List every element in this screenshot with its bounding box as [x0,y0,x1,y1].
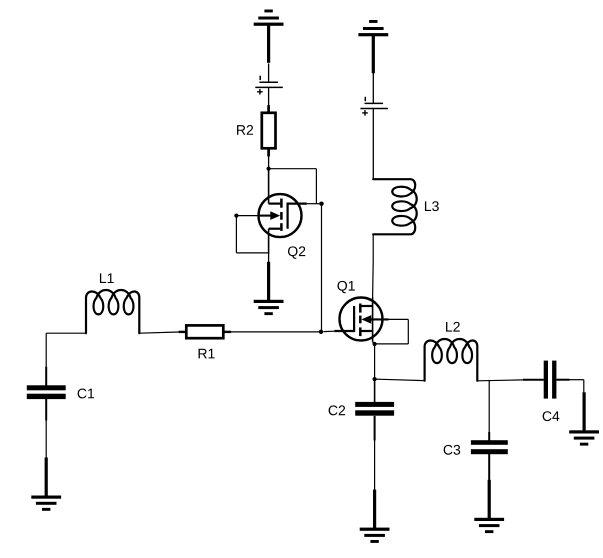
wire [268,87,270,105]
label L3 [425,201,439,211]
Q2 top stub [269,203,281,205]
wire [268,64,270,83]
node junction below R2 [267,167,271,171]
Q2 source lead [268,229,270,254]
Q1 gate bar [353,306,355,332]
battery B1 [360,97,388,116]
transistor Q1 body circle [340,298,383,341]
wire [45,420,47,458]
node C2 junction [373,377,377,381]
resistor R1 [179,325,232,338]
wire L2 to C4 [477,379,523,382]
label R1 [199,349,215,359]
Q2 gate bar [287,203,289,229]
wire C4 to ground [569,380,584,394]
wire to C3 [488,381,490,437]
ground below Q2 [254,262,284,315]
wire [268,156,270,169]
label C1 [78,389,94,399]
power ground (top right, inverted) [358,20,388,73]
Q1 channel dashes [359,304,362,337]
Q1 drain lead [372,298,374,332]
label C4 [543,411,560,421]
capacitor C3 [471,432,508,480]
wire [269,169,317,204]
label L1 [100,273,114,283]
wire [231,331,319,333]
wire [324,330,335,332]
ground below C1 [31,458,61,511]
wire Q1 source down [374,344,376,379]
wire [374,440,376,491]
ground below C3 [474,480,504,533]
Q1 body arrow [361,315,408,324]
resistor R2 [262,105,276,156]
wire Q1 body loop [375,319,409,344]
node Q1 source junction [373,342,377,346]
Q2 gate stub [288,203,307,205]
Q2 body arrow [238,211,280,220]
label C3 [444,445,461,455]
Q2 channel dashes [280,199,283,231]
wire [372,109,374,180]
power ground (top left, inverted) [254,10,284,63]
Q1 bottom stub [361,330,373,332]
Q2 bottom stub [269,228,281,230]
wire [372,71,374,103]
Q1 top stub [361,305,373,307]
inductor L3 [373,179,417,234]
wire L3 to Q1 drain [372,234,375,297]
node Q2 gate junction [319,202,323,206]
inductor L1 [86,290,139,333]
wire [268,253,270,263]
capacitor C1 [27,367,66,421]
Q1 gate stub [334,330,354,332]
node R1-Q1 gate junction [319,330,323,334]
label Q1 [337,281,354,293]
wire [46,333,86,367]
wire [307,203,320,205]
ground below C2 [360,490,390,543]
wire C2 node to L2 [375,379,425,381]
transistor Q2 body circle [259,194,302,237]
label C2 [329,405,345,415]
label L2 [446,322,460,332]
wire Q2 gate to R1 node [321,204,323,332]
Q2 drain lead [268,169,270,204]
wire Q2 body loop [236,216,268,253]
Q1 source lead [373,331,375,344]
label R2 [237,125,253,135]
label Q2 [288,246,305,258]
ground right of C4 [569,392,599,445]
capacitor C2 [355,379,394,440]
capacitor C4 [523,361,570,399]
battery B2 [255,76,282,95]
inductor L2 [425,339,478,381]
node Q2 body junction [234,214,238,218]
wire L1 to R1 [139,332,178,333]
